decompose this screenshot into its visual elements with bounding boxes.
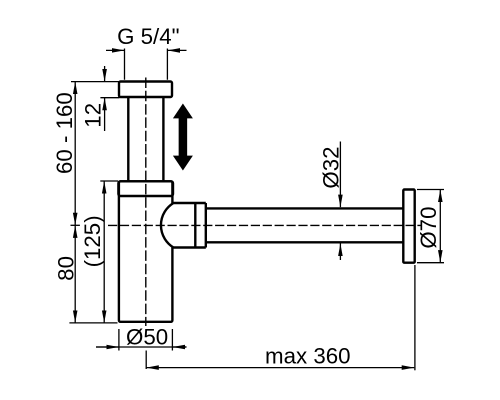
dim Ø50 arrows xyxy=(96,346,119,348)
ext line flange top xyxy=(71,81,119,83)
dim Ø50 ticks xyxy=(119,329,172,351)
svg-text:Ø32: Ø32 xyxy=(319,146,344,188)
svg-text:Ø50: Ø50 xyxy=(126,324,168,349)
adjustability double arrow xyxy=(173,104,193,171)
trap body cup xyxy=(119,181,172,321)
vertical centerline xyxy=(145,78,147,327)
dim Ø32 arrows xyxy=(339,142,341,208)
dim G 5/4 ext lines xyxy=(125,49,168,80)
dim Ø70 ext lines xyxy=(417,190,444,263)
inlet flange nut xyxy=(119,82,172,98)
svg-text:12: 12 xyxy=(80,103,105,128)
outlet pipe Ø32 xyxy=(206,208,404,242)
svg-text:max 360: max 360 xyxy=(265,344,351,369)
outlet ring xyxy=(194,203,196,248)
outlet bell fill xyxy=(161,203,195,248)
svg-text:80: 80 xyxy=(54,256,79,281)
ext tick pipe axis xyxy=(71,224,80,226)
horizontal centerline xyxy=(108,224,421,226)
dim Ø70 line xyxy=(439,190,441,263)
dim max360 line xyxy=(146,367,414,369)
dim 12 arrows xyxy=(104,66,106,82)
dim 125 line xyxy=(103,181,105,323)
dim Ø50 line xyxy=(96,346,187,348)
svg-text:Ø70: Ø70 xyxy=(416,207,441,249)
wall flange Ø70 xyxy=(403,190,414,263)
outlet nut face xyxy=(205,203,207,248)
ext line body flange top xyxy=(100,180,118,182)
max360 left ext xyxy=(145,351,147,370)
svg-text:60 - 160: 60 - 160 xyxy=(52,92,77,174)
max360 right ext xyxy=(414,265,416,370)
ext line body bottom xyxy=(69,322,117,324)
dim 80 line xyxy=(74,225,76,323)
ext line flange bottom xyxy=(100,97,119,99)
dim G 5/4 arrows xyxy=(106,49,125,51)
inlet vertical pipe xyxy=(128,98,163,182)
dim 60-160 line xyxy=(74,82,76,226)
trap body top nut xyxy=(118,181,173,196)
outlet bell outline xyxy=(161,203,206,248)
svg-text:G 5/4": G 5/4" xyxy=(117,24,179,49)
svg-text:(125): (125) xyxy=(80,215,105,267)
